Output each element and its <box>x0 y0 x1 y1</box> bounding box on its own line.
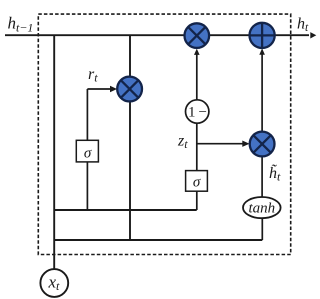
sigma box r-gate <box>76 140 98 162</box>
tanh ellipse <box>243 197 281 218</box>
svg-text:σ: σ <box>84 146 92 162</box>
add node (output sum) <box>250 23 275 48</box>
wire vertical x(t)/h(t-1) bus at x=54 <box>53 35 55 269</box>
multiply node r-gate (r * h) <box>117 77 142 102</box>
multiply node top (z * h) <box>185 23 210 48</box>
wire z path vertical: sigma to 1-minus to top multiply <box>196 54 198 211</box>
arrowhead up into top multiply <box>194 49 200 55</box>
wire tanh down to bus 2 <box>261 218 263 240</box>
wire inner horizontal bus 2 (tanh input) <box>54 239 262 241</box>
wire h(t-1) main top line <box>5 34 309 36</box>
sigma box z-gate <box>186 171 208 192</box>
dashed GRU cell boundary <box>38 14 290 254</box>
svg-text:tanh: tanh <box>248 201 275 217</box>
wire right vertical: multiply up into add node <box>261 54 263 133</box>
arrowhead h(t) output <box>310 32 316 38</box>
wire right multiply down to tanh <box>261 144 263 197</box>
wire below r sigma box down to inner bus <box>86 162 88 210</box>
multiply node right (z * h-tilde) <box>250 132 275 157</box>
svg-text:σ: σ <box>193 175 201 191</box>
wire vertical candidate path at x=130 <box>129 35 131 240</box>
node x(t) input circle <box>40 269 68 297</box>
wire inner horizontal bus 1 (gate inputs) <box>54 209 197 211</box>
1-minus node <box>186 100 209 123</box>
wire r-gate arrow into multiply node <box>87 88 112 90</box>
wire z arrow to right multiply node <box>197 143 244 145</box>
wire r-gate vertical from sigma box <box>86 89 88 140</box>
